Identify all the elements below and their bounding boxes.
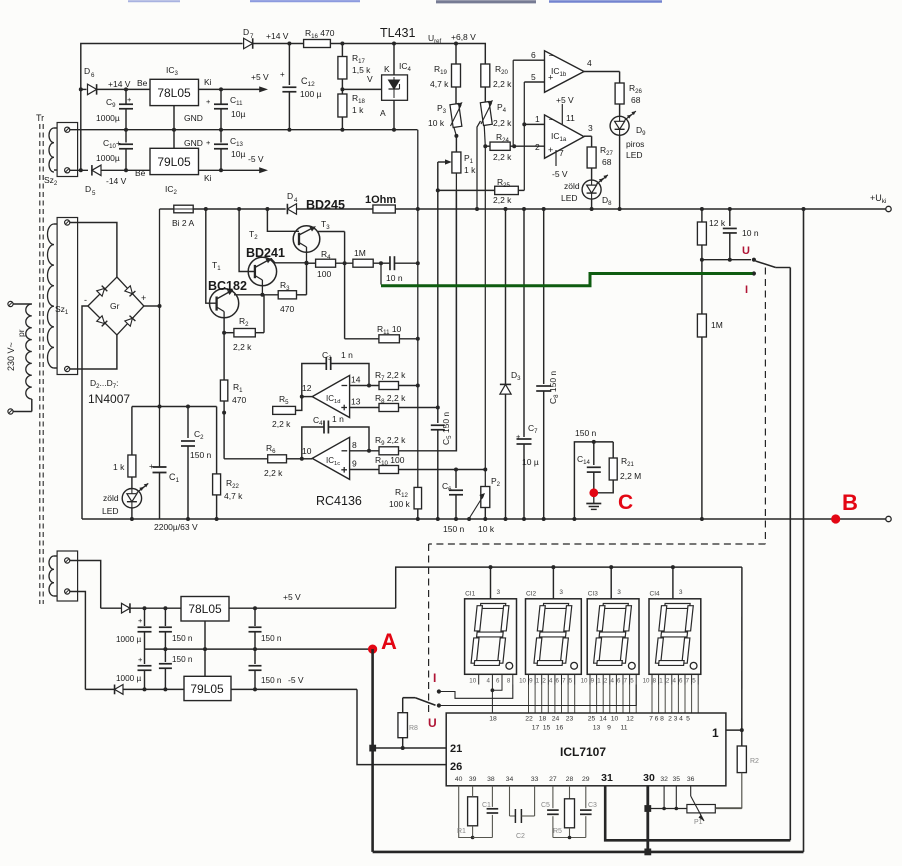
svg-text:R5: R5 <box>553 828 562 835</box>
svg-text:7: 7 <box>250 33 254 40</box>
svg-text:CI2: CI2 <box>526 591 537 598</box>
svg-text:34: 34 <box>506 776 514 783</box>
svg-text:+5 V: +5 V <box>251 72 269 82</box>
svg-text:150 n: 150 n <box>261 634 282 643</box>
svg-text:13: 13 <box>351 397 361 407</box>
pin 5 wire <box>524 81 544 83</box>
svg-text:zöld: zöld <box>564 181 580 191</box>
P1 column down to R9 corner <box>455 173 457 451</box>
svg-text:27: 27 <box>549 776 557 783</box>
op-amp IC1a <box>545 115 585 158</box>
svg-text:Gr: Gr <box>110 301 120 311</box>
svg-text:piros: piros <box>626 139 644 149</box>
LED D9 piros <box>610 116 629 135</box>
svg-text:CI1: CI1 <box>465 591 476 598</box>
diode D7 <box>244 38 253 49</box>
P1 wiper arrow <box>438 161 449 163</box>
svg-text:Ki: Ki <box>204 77 212 87</box>
mid 0V wire to A <box>145 648 373 650</box>
I wire to D1 pin8 <box>439 685 513 699</box>
svg-text:LED: LED <box>561 193 578 203</box>
pot P2 10k <box>483 468 487 472</box>
svg-text:2200µ/63 V: 2200µ/63 V <box>154 522 198 532</box>
capacitor C3 1n <box>302 364 327 397</box>
resistor R22 4.7k <box>216 407 218 474</box>
svg-text:39: 39 <box>469 776 477 783</box>
node A red dot <box>368 645 377 654</box>
capacitor 150n after 79L05 <box>254 649 256 664</box>
svg-text:12 k: 12 k <box>709 218 726 228</box>
pot P3 10k (slanted) <box>456 104 457 107</box>
svg-text:+14 V: +14 V <box>108 79 131 89</box>
svg-text:9: 9 <box>591 678 595 685</box>
svg-text:+: + <box>138 655 143 664</box>
svg-text:CI3: CI3 <box>588 591 599 598</box>
svg-text:12: 12 <box>626 716 634 723</box>
svg-text:3: 3 <box>617 589 621 596</box>
P2 wiper from ground rail <box>469 496 483 519</box>
capacitor C3 (ICL) <box>585 786 587 808</box>
svg-text:2: 2 <box>668 716 672 723</box>
svg-text:5: 5 <box>686 716 690 723</box>
svg-text:BD241: BD241 <box>246 246 285 260</box>
svg-text:150 n: 150 n <box>575 428 597 438</box>
svg-text:Bi 2 A: Bi 2 A <box>172 218 195 228</box>
capacitor C9 1000u <box>124 87 128 91</box>
pin 14 wire + R7 <box>350 385 379 387</box>
svg-text:2,2 k: 2,2 k <box>272 419 291 429</box>
svg-text:R8: R8 <box>409 725 418 732</box>
svg-text:6: 6 <box>655 716 659 723</box>
svg-text:-5 V: -5 V <box>248 154 264 164</box>
green wire <box>380 263 382 284</box>
svg-text:+: + <box>149 462 154 471</box>
svg-text:10: 10 <box>581 678 588 685</box>
svg-text:6: 6 <box>679 678 683 685</box>
svg-text:4: 4 <box>610 678 614 685</box>
pin 1 wire + R2 <box>726 729 742 731</box>
+5V output arrow <box>199 88 263 90</box>
svg-text:2,2 k: 2,2 k <box>233 342 252 352</box>
svg-text:21: 21 <box>450 743 462 755</box>
primary winding 230V <box>8 301 13 306</box>
svg-text:+: + <box>206 138 211 147</box>
svg-text:I: I <box>433 671 436 685</box>
svg-text:15: 15 <box>543 725 551 732</box>
svg-text:1: 1 <box>536 678 540 685</box>
svg-text:1 k: 1 k <box>464 165 476 175</box>
svg-text:36: 36 <box>687 776 695 783</box>
svg-text:2,2 k: 2,2 k <box>264 468 283 478</box>
winding 3 (bottom) <box>57 551 78 601</box>
I contact (green end) <box>752 271 756 275</box>
svg-text:100: 100 <box>317 269 331 279</box>
resistor R17 1.5k <box>340 42 344 46</box>
svg-text:10: 10 <box>519 678 526 685</box>
svg-text:4: 4 <box>587 58 592 68</box>
pin 12 output wire <box>302 396 312 398</box>
capacitor C7 10u column <box>522 207 526 211</box>
svg-text:1000 µ: 1000 µ <box>116 635 141 644</box>
svg-text:1: 1 <box>712 726 719 740</box>
IC4 TL431 <box>392 42 396 46</box>
bottom rail <box>82 518 886 520</box>
svg-text:10µ: 10µ <box>231 149 245 159</box>
display CI2 <box>526 599 582 675</box>
svg-text:LED: LED <box>102 506 119 516</box>
C14 / R21 subcircuit <box>574 442 613 519</box>
resistor R5 (ICL) <box>569 786 571 799</box>
T3 emitter wire to output node <box>318 231 345 233</box>
transformer Tr core <box>39 124 41 604</box>
1M resistor right <box>701 260 703 314</box>
pot P1 (ICL) <box>687 805 715 813</box>
bridge minus vertical wire <box>82 306 88 519</box>
svg-text:1 k: 1 k <box>113 462 125 472</box>
svg-text:-14 V: -14 V <box>106 176 127 186</box>
display CI4 <box>649 599 701 675</box>
svg-text:470: 470 <box>232 395 246 405</box>
svg-text:3: 3 <box>559 589 563 596</box>
svg-text:10 k: 10 k <box>478 524 495 534</box>
svg-text:D: D <box>287 191 293 201</box>
P1-wiper column + C5 <box>437 162 439 408</box>
svg-text:TL431: TL431 <box>380 26 415 40</box>
svg-text:4,7 k: 4,7 k <box>430 79 449 89</box>
79L05 gnd stub <box>204 649 206 676</box>
svg-text:R1: R1 <box>457 828 466 835</box>
svg-text:Be: Be <box>137 78 148 88</box>
svg-text:2,2 k: 2,2 k <box>493 195 512 205</box>
pin 31 thick path <box>605 786 790 841</box>
svg-text:79L05: 79L05 <box>190 682 224 696</box>
pin 10 output wire <box>302 458 312 460</box>
pot P1 1k <box>452 152 461 173</box>
R4 100 wire <box>271 259 307 263</box>
dashed boundary <box>764 268 766 545</box>
resistor R11 10 <box>344 232 346 339</box>
svg-text:-: - <box>84 295 87 305</box>
transistor T3 BD245 <box>265 207 269 211</box>
svg-text:1N4007: 1N4007 <box>88 392 130 406</box>
1 ohm shunt resistor <box>373 205 395 213</box>
capacitor C10 1000u <box>125 130 127 143</box>
capacitor C11 10u <box>219 87 223 91</box>
svg-text:150 n: 150 n <box>261 676 282 685</box>
capacitor C1 <box>153 466 167 468</box>
switch U contact <box>752 258 756 262</box>
svg-text:+: + <box>516 432 521 441</box>
resistor R1 470 <box>220 380 227 401</box>
svg-text:29: 29 <box>582 776 590 783</box>
capacitor C5 150n <box>437 408 439 423</box>
main output rail <box>193 208 286 210</box>
secondary winding Sz2 <box>57 123 78 177</box>
-5V output arrow <box>199 169 263 171</box>
capacitor 150n lower <box>164 649 166 662</box>
svg-text:pr: pr <box>16 329 26 337</box>
svg-text:7: 7 <box>686 678 690 685</box>
U wire to D3 pin5 <box>439 685 636 706</box>
svg-text:Ki: Ki <box>204 173 212 183</box>
svg-text:LED: LED <box>626 150 643 160</box>
diode D3 column <box>504 207 508 211</box>
svg-text:9: 9 <box>607 725 611 732</box>
diode D5 <box>70 169 88 171</box>
winding3 bottom wire + diode <box>70 592 86 690</box>
78L05 GND stub <box>173 106 175 130</box>
switch arm lower <box>415 698 435 706</box>
svg-text:R2: R2 <box>750 758 759 765</box>
thick bottom wire <box>373 851 804 854</box>
svg-text:10 µ: 10 µ <box>522 457 539 467</box>
diode D6 <box>88 84 97 95</box>
svg-text:C1: C1 <box>482 802 491 809</box>
svg-text:100 µ: 100 µ <box>300 89 322 99</box>
resistor R4 100 <box>316 259 336 267</box>
svg-text:150 n: 150 n <box>172 634 193 643</box>
svg-text:+: + <box>138 616 143 625</box>
svg-text:31: 31 <box>601 772 613 784</box>
svg-text:10: 10 <box>643 678 650 685</box>
IC3 78L05 <box>150 79 199 105</box>
svg-text:1 n: 1 n <box>332 414 344 424</box>
svg-text:1: 1 <box>597 678 601 685</box>
capacitor C2 150n <box>187 407 189 439</box>
svg-text:7: 7 <box>624 678 628 685</box>
svg-text:8: 8 <box>507 678 511 685</box>
svg-text:U: U <box>742 245 750 257</box>
resistor R27 68 <box>587 147 596 168</box>
svg-text:68: 68 <box>602 157 612 167</box>
svg-text:5: 5 <box>692 678 696 685</box>
regulator 78L05 lower <box>181 597 229 622</box>
ground symbol <box>593 497 595 503</box>
svg-text:+6,8 V: +6,8 V <box>451 32 476 42</box>
svg-text:100 k: 100 k <box>389 499 411 509</box>
svg-text:26: 26 <box>450 761 462 773</box>
svg-text:A: A <box>380 108 386 118</box>
svg-text:D: D <box>84 66 90 76</box>
pin 3 output <box>584 135 592 137</box>
capacitor 1000u upper <box>144 608 146 626</box>
D1 pin6 jog <box>492 685 502 691</box>
Sz1 to bridge wires <box>70 223 117 278</box>
svg-text:6: 6 <box>496 678 500 685</box>
svg-text:D: D <box>243 27 249 37</box>
79L05 GND stub <box>173 130 175 149</box>
svg-text:3: 3 <box>679 589 683 596</box>
svg-text:+5 V: +5 V <box>283 592 301 602</box>
svg-text:25: 25 <box>588 716 596 723</box>
+Uki terminal <box>886 206 891 211</box>
GND rail / sense chain vertical <box>417 130 419 488</box>
svg-text:2: 2 <box>535 142 540 152</box>
svg-text:230 V~: 230 V~ <box>6 342 16 371</box>
svg-text:10 n: 10 n <box>742 228 759 238</box>
top AC wire <box>81 44 243 171</box>
svg-text:68: 68 <box>631 95 641 105</box>
svg-text:9: 9 <box>352 459 357 469</box>
svg-text:2,2 k: 2,2 k <box>493 152 512 162</box>
svg-text:6: 6 <box>531 50 536 60</box>
secondary winding Sz1 <box>57 218 78 375</box>
R20 2.2k column <box>484 44 485 65</box>
fuse Bi 2A <box>160 208 174 210</box>
svg-text:10 n: 10 n <box>386 273 403 283</box>
svg-text:+: + <box>206 97 211 106</box>
svg-text:1000 µ: 1000 µ <box>116 674 141 683</box>
svg-text:I: I <box>745 284 748 296</box>
pin 8 wire + R9 <box>350 450 379 452</box>
GND rail (mid) <box>70 129 418 131</box>
svg-text:RC4136: RC4136 <box>316 494 362 508</box>
svg-text:D: D <box>85 184 91 194</box>
svg-text:7: 7 <box>559 148 564 158</box>
capacitor C4 1n <box>300 457 304 461</box>
svg-text:150 n: 150 n <box>172 655 193 664</box>
78L05 gnd stub <box>204 621 206 649</box>
V node wire <box>340 87 344 91</box>
switch arm <box>756 261 776 268</box>
pin 4 output <box>584 71 620 73</box>
pin 9 wire + R10 <box>350 469 379 471</box>
svg-text:10 k: 10 k <box>428 118 445 128</box>
svg-text:2,2 k: 2,2 k <box>493 79 512 89</box>
svg-text:33: 33 <box>531 776 539 783</box>
transistor T2 BD241 <box>237 207 241 211</box>
svg-text:2,2 k: 2,2 k <box>493 118 512 128</box>
svg-text:+: + <box>548 145 553 155</box>
svg-text:4: 4 <box>294 197 298 204</box>
svg-text:B: B <box>842 490 858 515</box>
svg-text:18: 18 <box>539 716 547 723</box>
pin 30 thick column <box>646 786 649 852</box>
svg-text:35: 35 <box>673 776 681 783</box>
svg-text:BD245: BD245 <box>306 198 345 212</box>
svg-text:5: 5 <box>531 72 536 82</box>
+5V wire <box>229 607 396 609</box>
svg-text:8: 8 <box>653 678 657 685</box>
svg-text:150 n: 150 n <box>443 524 465 534</box>
LED box top wire <box>132 406 217 408</box>
capacitor C5 (ICL) <box>552 786 554 808</box>
svg-text:13: 13 <box>593 725 601 732</box>
svg-text:7: 7 <box>649 716 653 723</box>
svg-text:Tr: Tr <box>36 113 44 123</box>
svg-text:18: 18 <box>489 716 497 723</box>
pin 6 wire <box>513 59 544 61</box>
svg-text:1: 1 <box>535 114 540 124</box>
svg-text:10: 10 <box>611 716 619 723</box>
main filter column C1 2200u <box>159 209 161 467</box>
svg-text:-5 V: -5 V <box>552 169 568 179</box>
resistor R19 4.7k column <box>454 42 458 46</box>
svg-text:17: 17 <box>532 725 540 732</box>
bridge rectifier Gr <box>88 277 144 335</box>
svg-text:10: 10 <box>469 678 476 685</box>
pin32/35 wires + P1 <box>648 808 687 810</box>
resistor R24 2.2k <box>483 144 487 148</box>
svg-text:1000µ: 1000µ <box>96 113 120 123</box>
svg-text:28: 28 <box>566 776 574 783</box>
svg-text:C: C <box>618 491 633 514</box>
U contact <box>437 703 441 707</box>
svg-text:150 n: 150 n <box>190 450 212 460</box>
diode D4 <box>287 204 296 215</box>
svg-text:−: − <box>549 115 554 125</box>
display CI3 <box>587 599 639 675</box>
C6 column <box>455 470 457 489</box>
pin 7 -5V stub <box>555 150 557 166</box>
svg-text:10µ: 10µ <box>231 109 245 119</box>
svg-text:11: 11 <box>620 725 627 732</box>
svg-text:1 n: 1 n <box>341 350 353 360</box>
svg-text:32: 32 <box>660 776 668 783</box>
svg-text:30: 30 <box>643 772 655 784</box>
pot P4 2.2k (slanted) <box>480 101 492 125</box>
right verticals <box>789 268 791 841</box>
svg-text:3: 3 <box>588 123 593 133</box>
svg-text:1Ohm: 1Ohm <box>365 194 396 206</box>
svg-text:+: + <box>280 70 285 79</box>
svg-text:2,2 M: 2,2 M <box>620 471 641 481</box>
capacitor 10n <box>389 256 391 270</box>
svg-text:V: V <box>367 74 373 84</box>
I contact <box>437 689 441 693</box>
pin 1 wire <box>524 123 544 125</box>
svg-text:P1: P1 <box>694 819 703 826</box>
display CI1 <box>465 599 517 675</box>
svg-text:C3: C3 <box>588 802 597 809</box>
wire D6 branch <box>79 87 83 91</box>
svg-text:14: 14 <box>351 375 361 385</box>
pin 2 wire <box>514 145 544 147</box>
svg-text:2: 2 <box>542 678 546 685</box>
svg-text:4,7 k: 4,7 k <box>224 491 243 501</box>
svg-text:1M: 1M <box>354 248 366 258</box>
op-amp IC1b <box>545 51 585 93</box>
svg-text:40: 40 <box>455 776 463 783</box>
svg-text:12: 12 <box>302 383 312 393</box>
transistor T1 BC182 <box>204 207 208 211</box>
LED D8 zold <box>582 180 601 199</box>
winding3 top wire + diode <box>70 561 101 609</box>
svg-text:38: 38 <box>487 776 495 783</box>
capacitor C13 10u <box>220 130 222 143</box>
capacitor C12 100u <box>287 42 291 46</box>
regulator 79L05 lower <box>184 676 231 700</box>
pin 21 wire <box>374 747 446 749</box>
resistor R16 470 <box>304 40 331 48</box>
svg-text:1M: 1M <box>711 320 723 330</box>
svg-text:3: 3 <box>497 589 501 596</box>
svg-text:4: 4 <box>672 678 676 685</box>
svg-text:9: 9 <box>529 678 533 685</box>
capacitor 150n after 78L05 <box>254 608 256 626</box>
svg-text:4: 4 <box>549 678 553 685</box>
zold LED <box>122 489 141 508</box>
svg-text:1: 1 <box>659 678 663 685</box>
svg-text:78L05: 78L05 <box>157 86 191 100</box>
capacitor C2 (ICL) <box>509 786 511 816</box>
svg-text:5: 5 <box>630 678 634 685</box>
svg-text:6: 6 <box>91 72 95 79</box>
node B red dot <box>831 514 840 523</box>
svg-text:U: U <box>428 716 437 730</box>
svg-text:+5 V: +5 V <box>556 95 574 105</box>
IC ICL7107 <box>446 713 726 786</box>
